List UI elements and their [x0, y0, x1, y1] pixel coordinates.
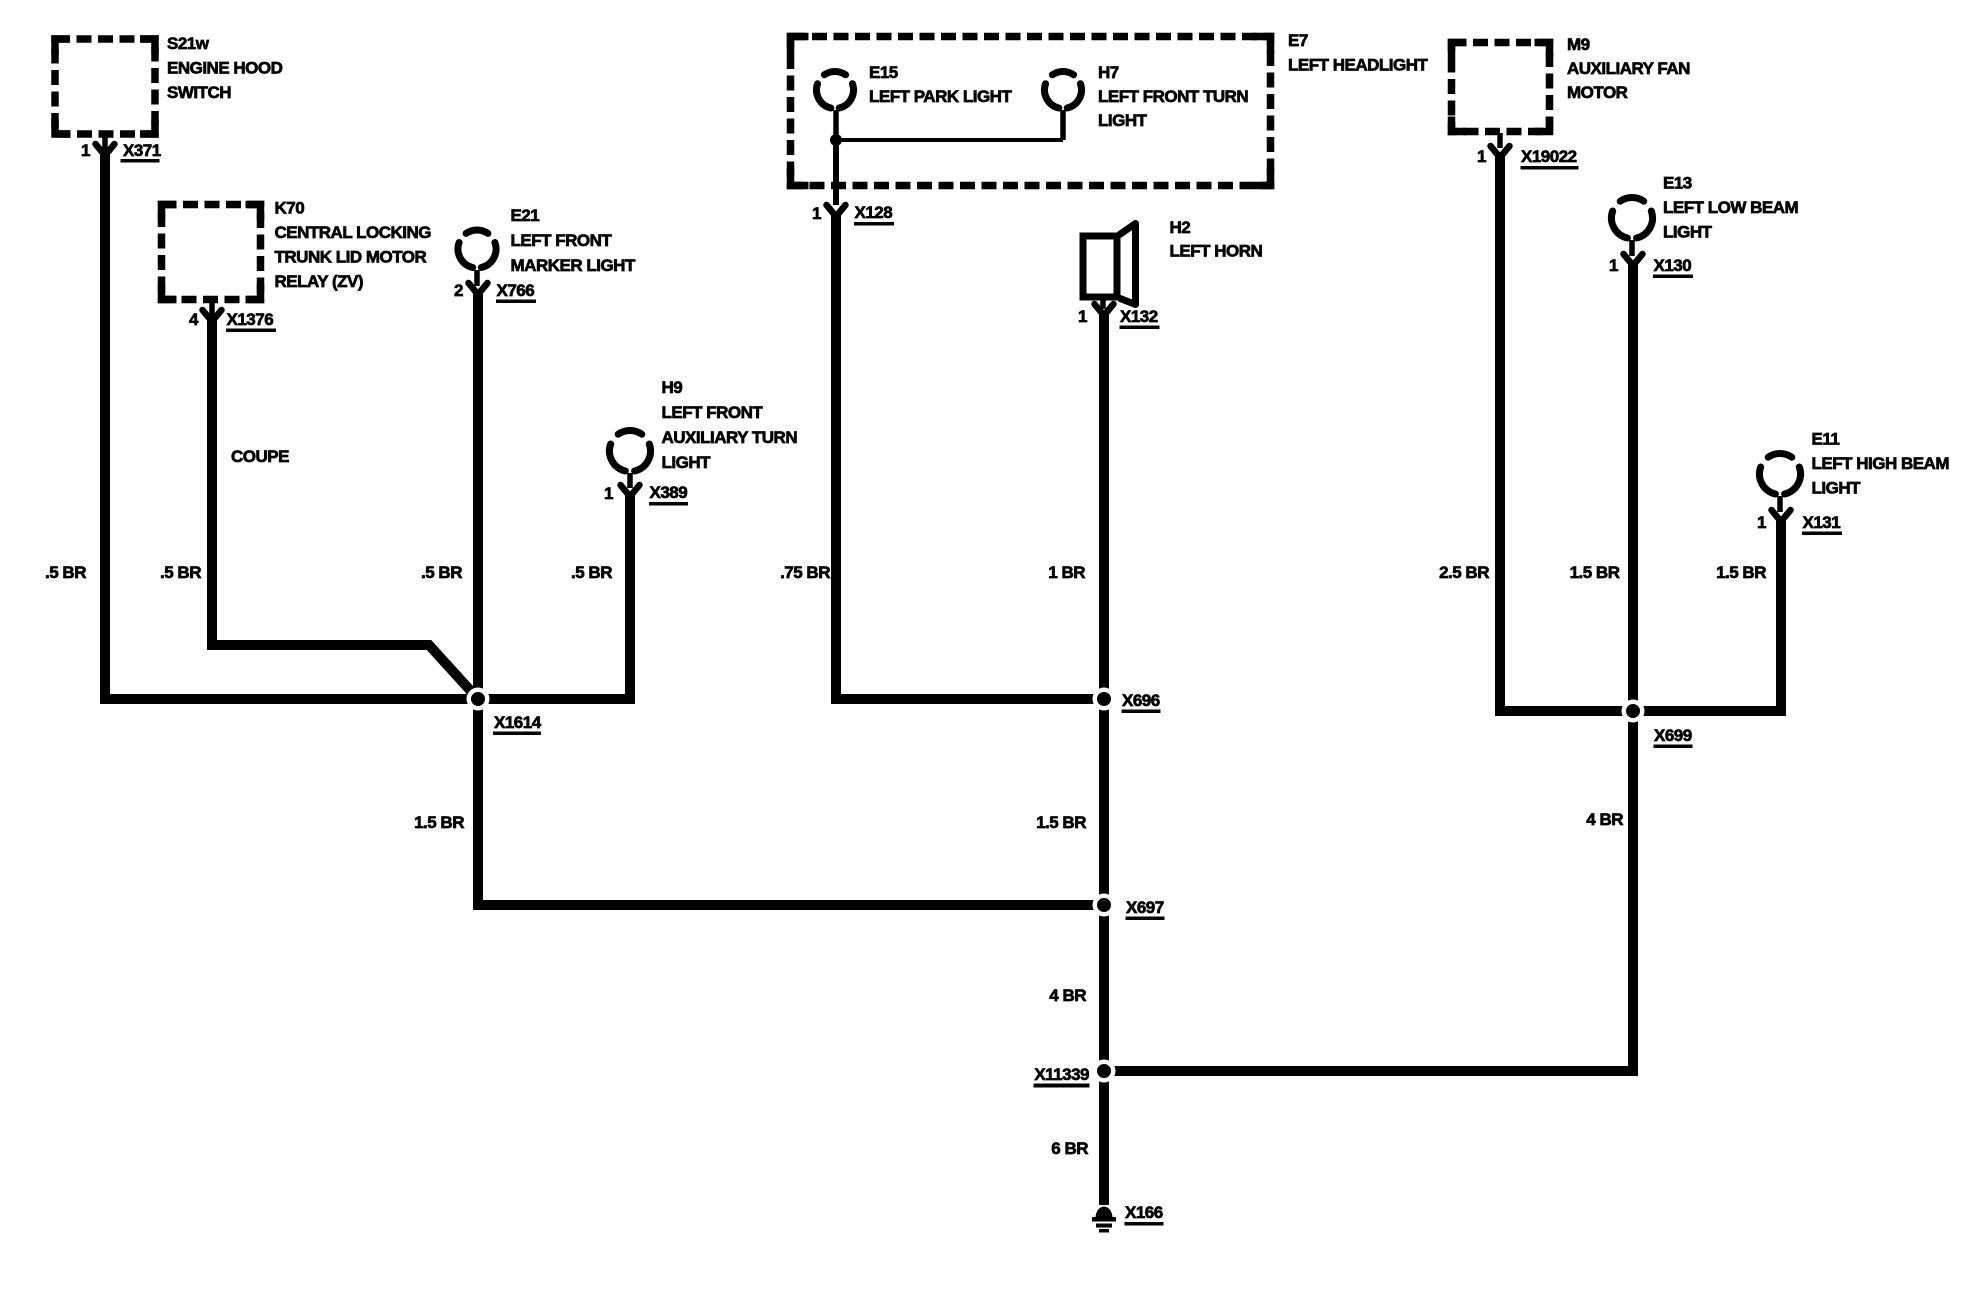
node X699	[1622, 700, 1693, 749]
wire: H2 horn down through X696 X697 X11339 to ground	[1099, 311, 1109, 1205]
pin 2 connector X766	[454, 270, 536, 303]
wire: E15 to H7 internal link	[836, 138, 1063, 142]
node X696	[1093, 688, 1161, 714]
svg-text:H7: H7	[1098, 63, 1119, 82]
svg-text:LEFT FRONT: LEFT FRONT	[511, 231, 613, 250]
svg-text:MARKER LIGHT: MARKER LIGHT	[511, 256, 636, 275]
svg-text:E7: E7	[1288, 31, 1308, 50]
pin 1 connector X132	[1078, 300, 1159, 329]
aux fan motor M9	[1452, 35, 1691, 132]
svg-text:X389: X389	[650, 483, 688, 502]
engine hood switch S21w	[55, 34, 283, 134]
wire: M9 down and right bus through X699 to E11	[1500, 153, 1786, 711]
svg-text:SWITCH: SWITCH	[167, 83, 231, 102]
svg-text:E15: E15	[869, 63, 898, 82]
svg-text:H9: H9	[662, 378, 683, 397]
svg-text:H2: H2	[1170, 218, 1191, 237]
svg-text:2.5 BR: 2.5 BR	[1439, 563, 1489, 582]
wire: E21 down through X1614 to X697 bus	[473, 291, 483, 905]
wire: X697 horizontal bus	[478, 900, 1104, 905]
svg-text:X19022: X19022	[1521, 147, 1577, 166]
node X11339	[1034, 1060, 1116, 1088]
svg-text:X699: X699	[1654, 726, 1692, 745]
node: internal junction	[830, 134, 842, 146]
node X1614	[467, 688, 542, 736]
pin 1 connector X128	[812, 203, 894, 226]
svg-text:X697: X697	[1126, 898, 1164, 917]
turn light H7	[1045, 63, 1249, 130]
svg-text:2: 2	[454, 281, 463, 300]
wire: E15 stem	[833, 110, 839, 140]
svg-text:M9: M9	[1567, 35, 1590, 54]
horn H2	[1083, 218, 1262, 305]
svg-text:1.5 BR: 1.5 BR	[414, 813, 464, 832]
aux turn light H9	[609, 378, 797, 472]
svg-text:1: 1	[81, 141, 90, 160]
marker light E21	[458, 206, 636, 275]
svg-text:X696: X696	[1122, 691, 1160, 710]
svg-text:1: 1	[1477, 147, 1486, 166]
svg-text:LEFT FRONT TURN: LEFT FRONT TURN	[1098, 87, 1248, 106]
pin 1 connector X389	[604, 473, 688, 506]
svg-text:MOTOR: MOTOR	[1567, 83, 1628, 102]
wire: X128 down and right to X696	[836, 213, 1104, 699]
svg-text:1.5 BR: 1.5 BR	[1036, 813, 1086, 832]
svg-text:LIGHT: LIGHT	[662, 453, 712, 472]
svg-text:.5 BR: .5 BR	[160, 563, 201, 582]
pin 4 connector X1376	[189, 302, 276, 332]
svg-text:TRUNK LID MOTOR: TRUNK LID MOTOR	[275, 248, 427, 267]
svg-text:E11: E11	[1812, 430, 1840, 449]
svg-text:1: 1	[1609, 256, 1618, 275]
svg-text:S21w: S21w	[167, 34, 210, 53]
wire: S21w X371 down to ground bus	[100, 152, 110, 704]
svg-text:LEFT HIGH BEAM: LEFT HIGH BEAM	[1812, 454, 1950, 473]
svg-text:CENTRAL LOCKING: CENTRAL LOCKING	[275, 223, 432, 242]
svg-text:X11339: X11339	[1034, 1065, 1089, 1084]
svg-text:1: 1	[1078, 307, 1087, 326]
svg-text:1: 1	[604, 484, 613, 503]
wire: H7 stem	[1060, 110, 1066, 140]
svg-text:LEFT LOW BEAM: LEFT LOW BEAM	[1663, 198, 1798, 217]
node X697	[1093, 894, 1165, 921]
wire: H9 down to bus	[625, 494, 635, 704]
svg-text:1.5 BR: 1.5 BR	[1570, 563, 1620, 582]
svg-text:X1614: X1614	[494, 713, 542, 732]
svg-text:1: 1	[812, 204, 821, 223]
svg-text:LIGHT: LIGHT	[1663, 223, 1713, 242]
svg-text:1 BR: 1 BR	[1048, 563, 1085, 582]
svg-text:LEFT HORN: LEFT HORN	[1170, 242, 1263, 261]
svg-text:E21: E21	[511, 206, 540, 225]
svg-text:E13: E13	[1663, 174, 1692, 193]
svg-text:.5 BR: .5 BR	[421, 563, 462, 582]
svg-text:RELAY (ZV): RELAY (ZV)	[275, 272, 364, 291]
pin 1 connector X371	[81, 136, 161, 163]
svg-text:LEFT PARK LIGHT: LEFT PARK LIGHT	[869, 87, 1012, 106]
svg-text:LIGHT: LIGHT	[1812, 479, 1862, 498]
svg-text:X128: X128	[855, 203, 893, 222]
svg-text:.75 BR: .75 BR	[780, 563, 830, 582]
svg-text:AUXILIARY TURN: AUXILIARY TURN	[662, 428, 798, 447]
wire: E11 down to X699 bus	[1776, 518, 1786, 716]
svg-text:X132: X132	[1120, 307, 1158, 326]
park light E15	[817, 63, 1013, 108]
svg-text:X766: X766	[497, 281, 535, 300]
svg-text:ENGINE HOOD: ENGINE HOOD	[167, 59, 283, 78]
svg-text:K70: K70	[275, 199, 305, 218]
svg-text:X130: X130	[1654, 256, 1692, 275]
low beam light E13	[1611, 174, 1798, 242]
svg-text:COUPE: COUPE	[231, 447, 289, 466]
pin 1 connector X130	[1609, 240, 1693, 278]
wire: horizontal bus S21w to H9 through X1614	[100, 694, 635, 704]
svg-text:AUXILIARY FAN: AUXILIARY FAN	[1567, 59, 1690, 78]
svg-text:4 BR: 4 BR	[1049, 986, 1086, 1005]
svg-text:LIGHT: LIGHT	[1098, 111, 1148, 130]
high beam light E11	[1759, 430, 1949, 498]
wire: E13 down through X699 to X11339 bus	[1099, 262, 1633, 1071]
svg-text:6 BR: 6 BR	[1051, 1139, 1088, 1158]
svg-text:LEFT HEADLIGHT: LEFT HEADLIGHT	[1288, 56, 1428, 75]
svg-text:1: 1	[1757, 513, 1766, 532]
wire: junction down to X128	[833, 140, 839, 205]
svg-text:.5 BR: .5 BR	[571, 563, 612, 582]
pin 1 connector X19022	[1477, 133, 1578, 170]
left headlight E7 box	[791, 31, 1429, 186]
wire: K70 X1376 down, right, diagonal into X1614	[212, 316, 479, 700]
svg-text:1.5 BR: 1.5 BR	[1716, 563, 1766, 582]
svg-text:.5 BR: .5 BR	[45, 563, 86, 582]
svg-text:LEFT FRONT: LEFT FRONT	[662, 403, 764, 422]
svg-text:4 BR: 4 BR	[1586, 810, 1623, 829]
svg-text:X371: X371	[123, 141, 161, 160]
svg-text:X1376: X1376	[227, 310, 274, 329]
relay K70	[162, 199, 432, 300]
svg-text:X166: X166	[1125, 1203, 1163, 1222]
svg-text:X131: X131	[1803, 513, 1841, 532]
ground X166	[1092, 1203, 1164, 1233]
svg-text:4: 4	[189, 310, 199, 329]
pin 1 connector X131	[1757, 496, 1842, 535]
